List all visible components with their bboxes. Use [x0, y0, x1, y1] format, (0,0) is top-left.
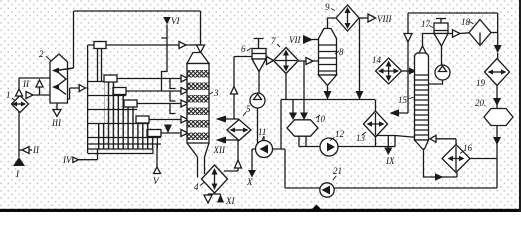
svg-text:4: 4 [194, 182, 199, 192]
svg-text:VII: VII [289, 35, 301, 45]
svg-text:15: 15 [398, 95, 408, 105]
svg-text:IV: IV [62, 155, 73, 165]
svg-text:X: X [246, 177, 253, 187]
svg-text:16: 16 [463, 143, 473, 153]
svg-text:1: 1 [6, 90, 11, 100]
svg-text:18: 18 [461, 17, 471, 27]
svg-text:13: 13 [356, 133, 366, 143]
svg-text:VI: VI [171, 16, 180, 26]
svg-text:14: 14 [372, 55, 382, 65]
svg-text:10: 10 [316, 114, 326, 124]
svg-text:8: 8 [339, 47, 344, 57]
svg-text:III: III [51, 118, 62, 128]
svg-text:6: 6 [241, 44, 246, 54]
svg-text:V: V [153, 176, 160, 186]
svg-text:2: 2 [39, 49, 44, 59]
svg-text:IX: IX [385, 156, 395, 166]
svg-text:21: 21 [333, 166, 342, 176]
svg-text:3: 3 [213, 88, 219, 98]
svg-text:II: II [32, 145, 40, 155]
svg-text:VIII: VIII [377, 14, 392, 24]
svg-text:I: I [15, 169, 20, 179]
svg-text:XII: XII [213, 145, 226, 155]
svg-text:12: 12 [335, 129, 345, 139]
svg-text:5: 5 [246, 104, 251, 114]
svg-text:11: 11 [258, 127, 266, 137]
svg-text:7: 7 [271, 36, 276, 46]
svg-text:19: 19 [476, 78, 486, 88]
svg-text:17: 17 [421, 19, 431, 29]
svg-text:II: II [22, 79, 30, 89]
svg-text:20.: 20. [475, 98, 486, 108]
svg-text:XI: XI [225, 196, 235, 206]
svg-text:9: 9 [325, 2, 330, 12]
